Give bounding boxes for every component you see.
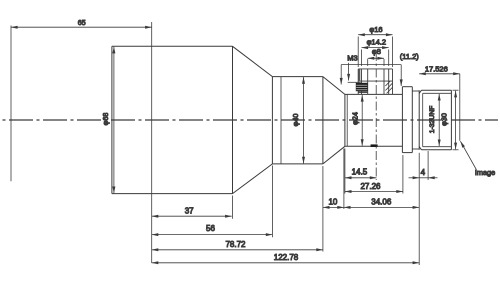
image plane line (459, 74, 461, 141)
thread relief lines (423, 93, 452, 146)
dimension phi14.2 (362, 48, 389, 66)
left extension line (10, 26, 12, 182)
svg-text:φ8: φ8 (372, 47, 381, 56)
svg-text:65: 65 (78, 20, 86, 27)
svg-text:17.526: 17.526 (425, 65, 448, 74)
svg-text:78.72: 78.72 (225, 240, 246, 249)
phi40 cylinder outline (272, 77, 323, 164)
dimension 1-32UNF (438, 94, 440, 146)
lock ring (402, 87, 412, 153)
svg-text:10: 10 (328, 198, 337, 207)
dimension phi24 (361, 95, 363, 146)
ring edge line on neck (346, 94, 348, 146)
dimension 34.06 (344, 206, 419, 208)
dimension 122.78 (152, 262, 420, 264)
right hatched block of cap (385, 81, 392, 93)
taper cone 1 (233, 46, 273, 76)
dimension 4 (409, 177, 438, 179)
svg-text:122.78: 122.78 (274, 253, 299, 262)
svg-text:φ30: φ30 (440, 113, 449, 126)
C-mount barrel phi30 (419, 90, 451, 150)
dimension phi16 (358, 35, 392, 67)
ring edge line on phi40 (280, 77, 282, 164)
svg-text:34.06: 34.06 (371, 198, 392, 207)
taper cone 2 (323, 77, 345, 95)
svg-text:φ68: φ68 (101, 113, 110, 126)
datum vertical line (front vertex plane) (151, 22, 153, 263)
svg-text:27.26: 27.26 (360, 182, 381, 191)
dimension 37 (152, 215, 232, 217)
dimension (11.2) (341, 65, 401, 86)
bottom extension lines (233, 149, 429, 266)
dimension phi30 (453, 90, 459, 150)
dimension 78.72 (152, 249, 323, 251)
black slot mark on neck bottom (371, 144, 378, 147)
dimension 14.5 (345, 177, 377, 179)
Image label with leader (460, 141, 476, 169)
dimension 17.526 (419, 73, 460, 75)
svg-text:14.5: 14.5 (352, 168, 368, 177)
svg-text:φ24: φ24 (351, 112, 360, 125)
large cylinder phi68 outline (112, 46, 233, 193)
dimension 56 (152, 234, 273, 236)
svg-text:Image: Image (475, 168, 495, 177)
optical axis centerline (2, 119, 498, 121)
svg-text:M3: M3 (347, 54, 357, 63)
set screw cap on neck (358, 69, 392, 95)
svg-text:1-32UNF: 1-32UNF (429, 106, 436, 134)
cap vertical centerline (375, 52, 377, 180)
dimension phi40 (303, 77, 305, 163)
svg-text:37: 37 (185, 207, 194, 216)
svg-text:4: 4 (421, 168, 426, 177)
dimension 27.26 (345, 191, 403, 193)
svg-text:56: 56 (206, 224, 215, 233)
M3 set screw (crosshatched block) (356, 69, 368, 93)
neck cylinder phi24 outline (345, 94, 403, 146)
svg-text:φ14.2: φ14.2 (367, 38, 386, 47)
svg-text:φ16: φ16 (369, 25, 382, 34)
step between ring and thread (412, 90, 419, 92)
dimension 10 (323, 206, 344, 208)
svg-text:φ40: φ40 (291, 114, 300, 127)
svg-text:(11.2): (11.2) (400, 52, 420, 61)
dimension phi8 (368, 58, 384, 66)
dimension phi68 (113, 47, 115, 193)
dimension 65 (top) (11, 26, 152, 28)
